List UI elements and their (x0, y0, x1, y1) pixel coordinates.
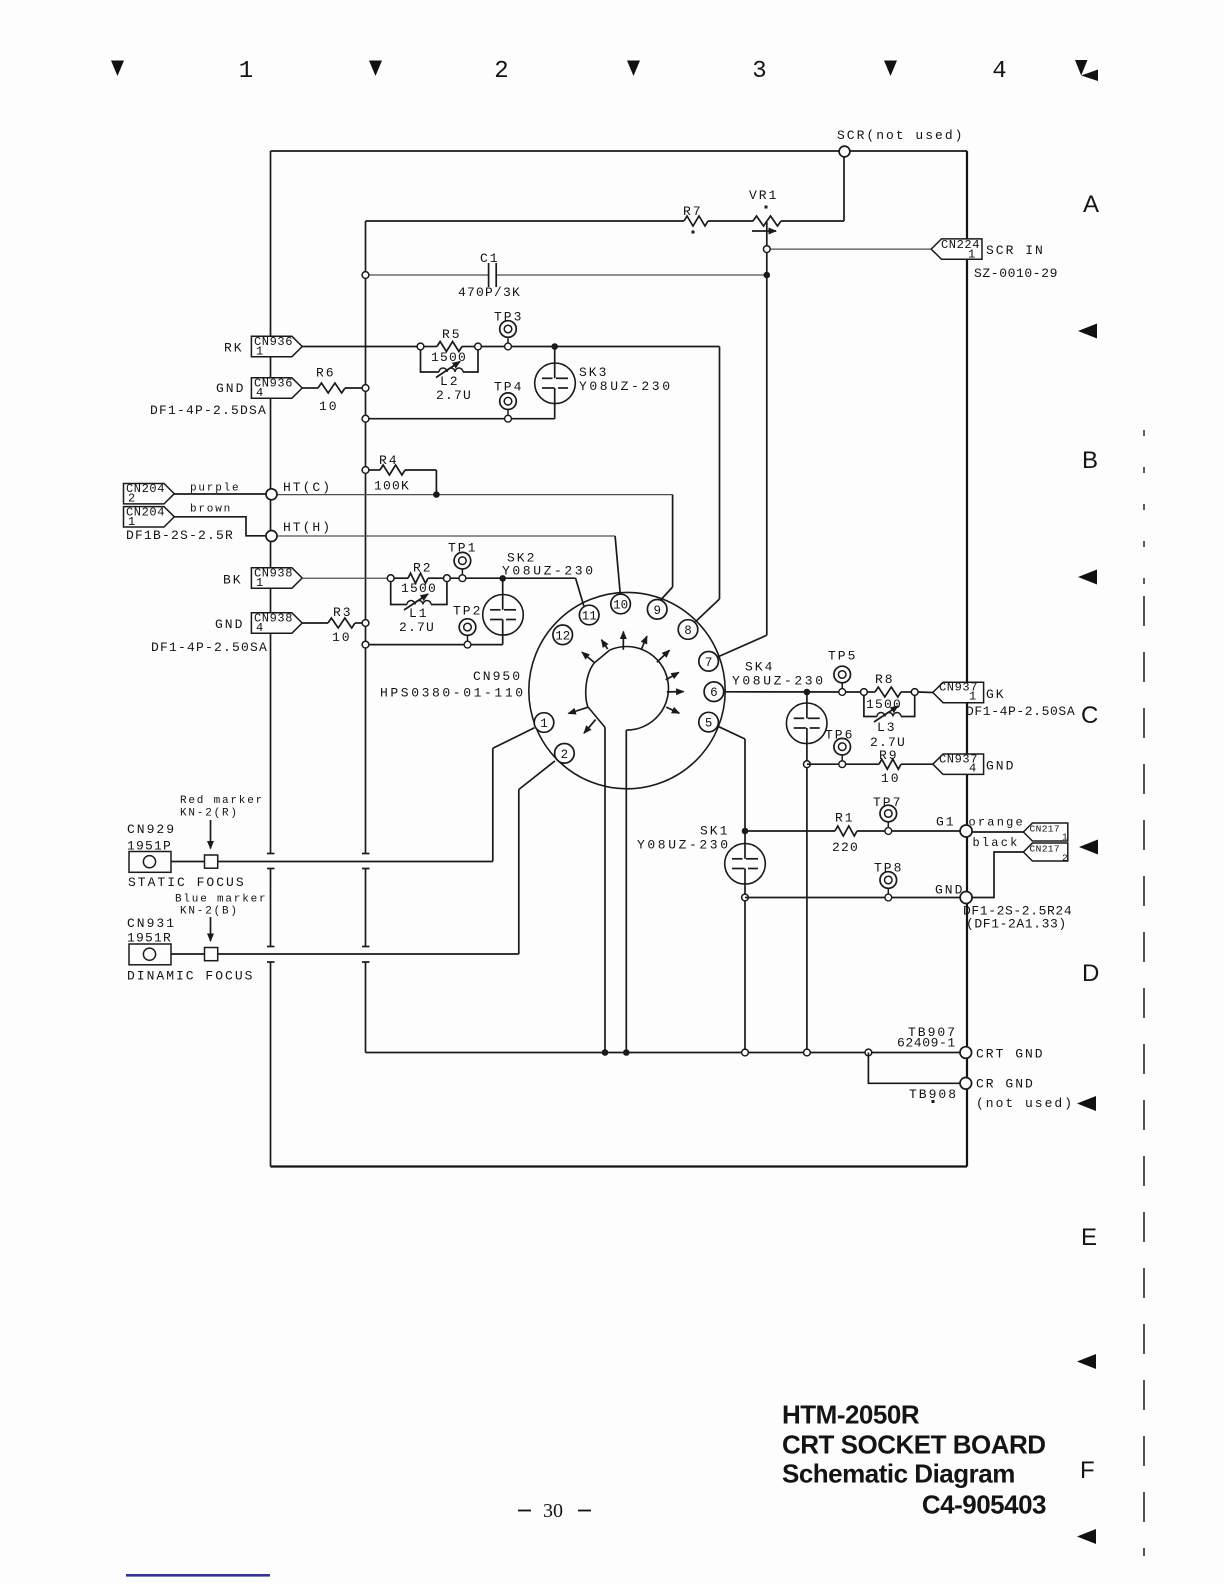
pin 8 (678, 620, 698, 640)
svg-text:TP4: TP4 (494, 380, 523, 395)
wire: ground bus (366, 1052, 962, 1054)
wire: R8 to CN937 (918, 691, 933, 694)
hub arrow to pin 6 (667, 691, 684, 693)
connector CN938 pin4 (251, 613, 302, 633)
svg-text:B: B (1082, 447, 1098, 474)
wire: pin 5 down through SK1 (744, 739, 746, 859)
svg-text:1: 1 (239, 58, 253, 85)
svg-text:11: 11 (582, 610, 597, 624)
svg-text:TP6: TP6 (825, 728, 854, 743)
svg-text:Y08UZ-230: Y08UZ-230 (502, 564, 596, 579)
svg-text:KN-2(R): KN-2(R) (180, 808, 239, 820)
wire: hub slot left to ground bus (604, 727, 606, 1052)
wire: CR GND link (868, 1053, 960, 1084)
crossover tick (267, 853, 275, 855)
svg-text:HPS0380-01-110: HPS0380-01-110 (380, 686, 526, 701)
pin 5 (699, 712, 719, 732)
svg-text:VR1: VR1 (749, 188, 778, 203)
hub arrow to pin 5 (666, 707, 679, 713)
wire: R4 down (435, 470, 437, 495)
svg-text:1500: 1500 (866, 697, 902, 712)
wire: R6 left (302, 387, 318, 389)
node R4 on rail (362, 467, 369, 474)
svg-text:4: 4 (969, 762, 977, 776)
svg-text:TB908: TB908 (909, 1087, 958, 1102)
spark gap SK3 (554, 347, 556, 379)
socket hub (610, 647, 669, 731)
wire: outer frame left upper (270, 151, 272, 854)
wire: HT(H) run (277, 535, 615, 537)
wire: R1 run (745, 830, 835, 832)
svg-text:R6: R6 (316, 366, 336, 381)
L3 variable arrow (874, 706, 898, 722)
marker arrow static (210, 820, 212, 849)
CRT socket CN950 outer circle (529, 592, 725, 788)
wire: hub slot right to ground bus (625, 730, 627, 1052)
svg-text:1: 1 (1062, 831, 1068, 842)
connector CN937 pin1 (933, 682, 984, 702)
VR1 mark (765, 206, 768, 209)
svg-text:STATIC FOCUS: STATIC FOCUS (128, 875, 246, 890)
hub arrow to pin 2 (584, 720, 596, 734)
svg-text:Red marker: Red marker (180, 795, 264, 807)
svg-text:CN217: CN217 (1030, 843, 1061, 854)
svg-text:C: C (1081, 702, 1098, 729)
wire: inner rail lower (365, 962, 367, 1053)
svg-text:L1: L1 (409, 606, 429, 621)
ruler tick 4 (884, 61, 897, 77)
svg-text:TP2: TP2 (453, 604, 482, 619)
TB908 mark (932, 1100, 935, 1103)
svg-text:G1: G1 (936, 815, 956, 830)
svg-text:HT(H): HT(H) (283, 520, 332, 535)
svg-text:L2: L2 (440, 374, 460, 389)
svg-text:KN-2(B): KN-2(B) (180, 906, 239, 918)
resistor R6 (318, 383, 345, 393)
connector CN217 pin2 (1023, 843, 1067, 861)
wire: R6 to rail (345, 387, 366, 389)
hub arrow to pin 8 (657, 650, 670, 662)
svg-text:Blue marker: Blue marker (175, 894, 267, 906)
svg-text:1: 1 (256, 345, 264, 359)
L2 variable arrow (436, 362, 460, 378)
svg-text:HTM-2050R: HTM-2050R (782, 1400, 920, 1430)
wire: outer frame bottom (271, 1165, 968, 1167)
inductor L3 branch box (864, 695, 877, 716)
junction slot wire left (602, 1049, 609, 1056)
svg-text:100K: 100K (374, 479, 410, 494)
wire: outer frame right (966, 151, 968, 1167)
pin 2 (555, 744, 575, 764)
wire: dynamic focus up to pin 2 (518, 790, 520, 955)
svg-text:470P/3K: 470P/3K (458, 285, 521, 300)
wire: R3 left (302, 622, 328, 624)
svg-text:(DF1-2A1.33): (DF1-2A1.33) (966, 917, 1067, 932)
svg-text:SZ-0010-29: SZ-0010-29 (974, 266, 1058, 281)
svg-text:TP8: TP8 (874, 861, 903, 876)
svg-text:Y08UZ-230: Y08UZ-230 (637, 838, 731, 853)
svg-text:220: 220 (832, 840, 859, 855)
node GND (960, 892, 972, 904)
svg-text:R2: R2 (413, 561, 433, 576)
page number 30 (518, 1510, 531, 1512)
node HT(C) (266, 489, 277, 500)
svg-text:10: 10 (319, 399, 339, 414)
wire: static focus up to pin 1 (492, 748, 494, 861)
margin arrow row A (1078, 324, 1097, 339)
wire: RK run right (481, 346, 719, 348)
junction slot wire right (623, 1049, 630, 1056)
junction R1/SK1 (742, 828, 749, 835)
svg-text:SCR(not used): SCR(not used) (837, 128, 964, 143)
svg-text:4: 4 (256, 386, 264, 400)
node R6 on rail (362, 385, 369, 392)
margin arrow row D (1077, 1096, 1096, 1111)
node R8 right (911, 689, 918, 696)
crossover tick (267, 946, 275, 948)
hub arrow to pin 11 (602, 640, 608, 649)
resistor R5 (437, 342, 462, 352)
wire: RK run (302, 346, 420, 348)
svg-text:2: 2 (561, 748, 569, 762)
wire: SK4 to ground bus (806, 764, 808, 1052)
test point TP4 (500, 393, 517, 422)
svg-text:2.7U: 2.7U (436, 388, 472, 403)
test point TP2 (459, 619, 476, 648)
capacitor C1 (488, 263, 490, 287)
svg-text:CN931: CN931 (127, 916, 176, 931)
node SK4 bottom (804, 761, 811, 768)
hub arrow to pin 1 (568, 707, 588, 713)
svg-text:R7: R7 (683, 204, 703, 219)
pin 11 (579, 605, 599, 625)
svg-text:black: black (973, 836, 1020, 850)
wire: pin 6 to SK4/R8 (724, 691, 864, 693)
margin arrow row B (1078, 570, 1097, 585)
svg-text:1500: 1500 (401, 581, 437, 596)
svg-text:CR GND: CR GND (976, 1077, 1035, 1092)
junction SK3 top (551, 343, 558, 350)
wire: black return (972, 852, 1023, 898)
test point TP3 (500, 321, 517, 350)
inductor L2 (439, 368, 463, 372)
svg-text:(not used): (not used) (976, 1096, 1074, 1111)
hub arrow to pin 7 (666, 672, 679, 680)
node C1 on rail (362, 272, 369, 279)
svg-text:GK: GK (986, 687, 1006, 702)
wire: HT(H) slant to pin 10 (615, 536, 620, 595)
terminal TB908 CR GND (960, 1078, 972, 1090)
svg-text:SK3: SK3 (579, 365, 608, 380)
junction C1/wiper (764, 272, 771, 279)
wire: C1 left run (366, 274, 489, 276)
focus marker KN-2(B) (205, 948, 218, 961)
wire: BK diagonal to pin 11 (576, 578, 584, 606)
pin 9 (647, 600, 667, 620)
resistor R2 (394, 577, 408, 579)
junction SK2 top (499, 575, 506, 582)
connector CN936 pin1 (251, 336, 302, 356)
spark gap SK4 (806, 692, 808, 718)
margin arrow row F (1077, 1529, 1096, 1544)
jack CN929 (129, 852, 171, 873)
svg-text:1951R: 1951R (127, 931, 172, 946)
svg-text:DF1-4P-2.5DSA: DF1-4P-2.5DSA (150, 403, 267, 418)
svg-text:2: 2 (1062, 852, 1068, 863)
wire: TP8 run (745, 897, 961, 899)
svg-text:purple: purple (190, 483, 240, 495)
svg-text:TP3: TP3 (494, 310, 523, 325)
svg-text:Schematic Diagram: Schematic Diagram (782, 1459, 1015, 1489)
pin 10 (611, 594, 631, 614)
wire: wiper to CN224 (767, 248, 931, 250)
margin arrow row E (1077, 1354, 1096, 1369)
ruler corner arrow (1081, 70, 1098, 82)
spark gap SK2 (502, 578, 504, 609)
wire: inner top run to R7 (366, 220, 685, 222)
svg-text:1: 1 (969, 690, 977, 704)
resistor R3 (328, 618, 355, 628)
svg-text:8: 8 (684, 624, 692, 638)
svg-text:30: 30 (543, 1500, 563, 1522)
margin arrow row C (1079, 840, 1098, 855)
ruler tick 3 (627, 61, 640, 77)
wire: SK2 lower run (366, 644, 503, 646)
wire: wiper diagonal to pin 7 (718, 635, 767, 657)
hub arrow to pin 12 (582, 652, 595, 663)
hub arrow to pin 10 (622, 632, 624, 650)
svg-text:10: 10 (332, 630, 352, 645)
svg-text:2: 2 (494, 58, 508, 85)
crossover tick (362, 946, 370, 948)
wire: static focus run (156, 861, 493, 863)
node SCR (not used) (839, 146, 850, 157)
wire: SK3 lower run (366, 418, 555, 420)
svg-text:C1: C1 (480, 251, 500, 266)
svg-text:2.7U: 2.7U (399, 620, 435, 635)
svg-text:62409-1: 62409-1 (897, 1036, 956, 1051)
crossover tick (362, 868, 370, 870)
svg-text:CN217: CN217 (1030, 823, 1061, 834)
svg-text:9: 9 (653, 604, 661, 618)
svg-text:DF1-4P-2.50SA: DF1-4P-2.50SA (966, 704, 1075, 719)
binding dashed line (1143, 430, 1145, 590)
svg-text:CRT GND: CRT GND (976, 1047, 1045, 1062)
svg-text:TP1: TP1 (448, 541, 477, 556)
pin 12 (553, 625, 573, 645)
svg-text:A: A (1083, 191, 1099, 218)
svg-text:3: 3 (752, 58, 766, 85)
connector CN224 (931, 239, 982, 259)
crossover tick (267, 961, 275, 963)
svg-text:R4: R4 (379, 453, 399, 468)
node HT(H) (266, 531, 277, 542)
inductor L3 (877, 713, 901, 717)
wire: SK1 to ground bus (744, 898, 746, 1053)
ruler tick 1 (111, 61, 124, 77)
svg-text:E: E (1081, 1224, 1097, 1251)
potentiometer VR1 (753, 216, 781, 226)
wire: SCR stub (843, 153, 845, 221)
svg-text:D: D (1082, 960, 1099, 987)
test point TP6 (834, 738, 851, 767)
connector CN936 pin4 (251, 378, 302, 398)
connector CN204 pin2 (124, 484, 175, 504)
svg-text:DF1-4P-2.50SA: DF1-4P-2.50SA (151, 640, 268, 655)
test point TP8 (880, 872, 897, 901)
connector CN204 pin1 (124, 507, 175, 527)
svg-text:Y08UZ-230: Y08UZ-230 (732, 674, 826, 689)
svg-text:CRT SOCKET BOARD: CRT SOCKET BOARD (782, 1430, 1046, 1460)
wire: R1 to G1 (857, 830, 961, 832)
pin 1 (534, 713, 554, 733)
svg-text:5: 5 (705, 717, 713, 731)
svg-text:R5: R5 (442, 327, 462, 342)
wire: outer frame top (271, 150, 968, 152)
svg-text:RK: RK (224, 341, 244, 356)
VR1 wiper arrow (752, 230, 776, 232)
node bus CR tap (865, 1049, 872, 1056)
svg-text:1: 1 (256, 576, 264, 590)
node SK2 lower on rail (362, 641, 369, 648)
crossover tick (362, 961, 370, 963)
svg-text:1: 1 (540, 717, 548, 731)
svg-text:1: 1 (968, 248, 976, 262)
wire: inner rail upper (365, 221, 367, 854)
inductor L1 (407, 601, 431, 605)
L1 variable arrow (404, 594, 428, 610)
wire: purple to HT(C) (174, 493, 266, 495)
wire: R5 wire segs (424, 346, 437, 348)
wire: R3 to rail (355, 622, 366, 624)
node wiper tap (763, 246, 770, 253)
wire: inner rail middle (365, 869, 367, 947)
marker arrow dynamic (210, 917, 212, 941)
resistor R1 (835, 826, 857, 836)
svg-text:Y08UZ-230: Y08UZ-230 (579, 379, 673, 394)
svg-text:GND: GND (986, 759, 1015, 774)
connector CN938 pin1 (251, 568, 302, 588)
test point TP7 (880, 805, 897, 834)
svg-text:TP5: TP5 (828, 649, 857, 664)
svg-text:SK1: SK1 (700, 824, 729, 839)
node R8 left (861, 689, 868, 696)
svg-text:7: 7 (705, 656, 713, 670)
svg-text:SK4: SK4 (745, 660, 774, 675)
wire: VR1 to SCR corner (781, 220, 844, 222)
node SK1 bottom (742, 894, 749, 901)
node R2 left (387, 575, 394, 582)
svg-text:2: 2 (128, 492, 136, 506)
pin 6 (704, 682, 724, 702)
focus marker KN-2(R) (205, 855, 218, 868)
svg-text:F: F (1080, 1457, 1095, 1484)
node bus SK4 (804, 1049, 811, 1056)
svg-text:1: 1 (128, 515, 136, 529)
hub arrow to pin 9 (642, 636, 647, 649)
svg-text:HT(C): HT(C) (283, 480, 332, 495)
wire: RK down to pin 8 (719, 347, 721, 600)
pin 7 (699, 652, 719, 672)
svg-text:R3: R3 (333, 605, 353, 620)
wire: BK run (302, 577, 391, 579)
jack CN931 (129, 944, 171, 965)
wire: brown to HT(H) (174, 517, 266, 536)
svg-text:CN929: CN929 (127, 822, 176, 837)
svg-text:DINAMIC FOCUS: DINAMIC FOCUS (127, 969, 254, 984)
svg-text:R9: R9 (879, 748, 899, 763)
svg-text:6: 6 (710, 686, 718, 700)
svg-text:brown: brown (190, 504, 232, 516)
crossover tick (362, 853, 370, 855)
ruler tick 2 (369, 61, 382, 77)
wire: pin 5 diagonal (718, 726, 745, 739)
svg-text:DF1B-2S-2.5R: DF1B-2S-2.5R (126, 528, 234, 543)
svg-text:R8: R8 (875, 672, 895, 687)
node bus SK1 (742, 1049, 749, 1056)
crossover tick (267, 868, 275, 870)
connector CN217 pin1 (1023, 823, 1067, 841)
node R5 right (475, 343, 482, 350)
wire: HT(C) run (277, 494, 673, 496)
svg-text:CN950: CN950 (473, 669, 522, 684)
spark gap SK1 (725, 844, 766, 885)
svg-text:C4-905403: C4-905403 (922, 1490, 1046, 1520)
svg-text:10: 10 (881, 771, 901, 786)
node R3 on rail (362, 620, 369, 627)
wire: BK run right (450, 577, 575, 579)
junction R4/HT(C) (433, 491, 440, 498)
wire: outer frame left lower (270, 962, 272, 1167)
wire: HT(C) down to pin 9 (672, 495, 674, 587)
terminal TB907 CRT GND (960, 1047, 972, 1059)
wire: dynamic focus run (156, 953, 519, 955)
svg-text:orange: orange (969, 816, 1025, 830)
svg-text:10: 10 (613, 599, 628, 613)
svg-text:GND: GND (215, 617, 244, 632)
node R5 left (417, 343, 424, 350)
svg-text:L3: L3 (877, 720, 897, 735)
node R2 right (444, 575, 451, 582)
node SK3 lower on rail (362, 415, 369, 422)
resistor R9 (879, 759, 901, 769)
inductor L1 branch box (391, 582, 407, 605)
wire: C1 right run (496, 274, 767, 276)
junction SK4 top (804, 689, 811, 696)
resistor R8 (867, 691, 875, 693)
inductor L2 branch box (421, 350, 440, 372)
wire: VR1 wiper down (766, 222, 768, 635)
ruler corner marker (1075, 60, 1088, 76)
svg-text:4: 4 (992, 58, 1006, 85)
wire: outer frame left middle (270, 869, 272, 947)
node G1 (960, 825, 972, 837)
wire: R7 to VR1 (708, 220, 753, 222)
test point TP5 (834, 666, 851, 695)
svg-text:GND: GND (216, 381, 245, 396)
connector CN937 pin4 (933, 754, 984, 774)
resistor R4 (369, 469, 380, 471)
wire: orange to CN217 (972, 831, 1024, 833)
resistor R7 (684, 216, 708, 226)
svg-text:12: 12 (555, 629, 570, 643)
wire: TP6/R9 run (807, 763, 879, 765)
svg-text:R1: R1 (835, 811, 855, 826)
R7 mark (692, 231, 695, 234)
svg-text:BK: BK (223, 573, 243, 588)
svg-text:4: 4 (256, 621, 264, 635)
svg-text:1500: 1500 (431, 350, 467, 365)
